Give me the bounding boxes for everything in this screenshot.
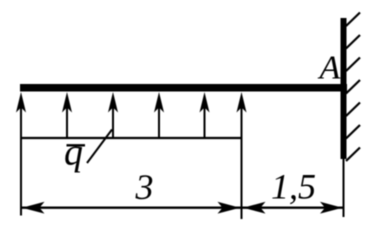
svg-text:3: 3 — [135, 167, 154, 207]
svg-text:q: q — [64, 132, 83, 174]
svg-text:A: A — [318, 50, 341, 87]
svg-text:1,5: 1,5 — [271, 167, 316, 207]
